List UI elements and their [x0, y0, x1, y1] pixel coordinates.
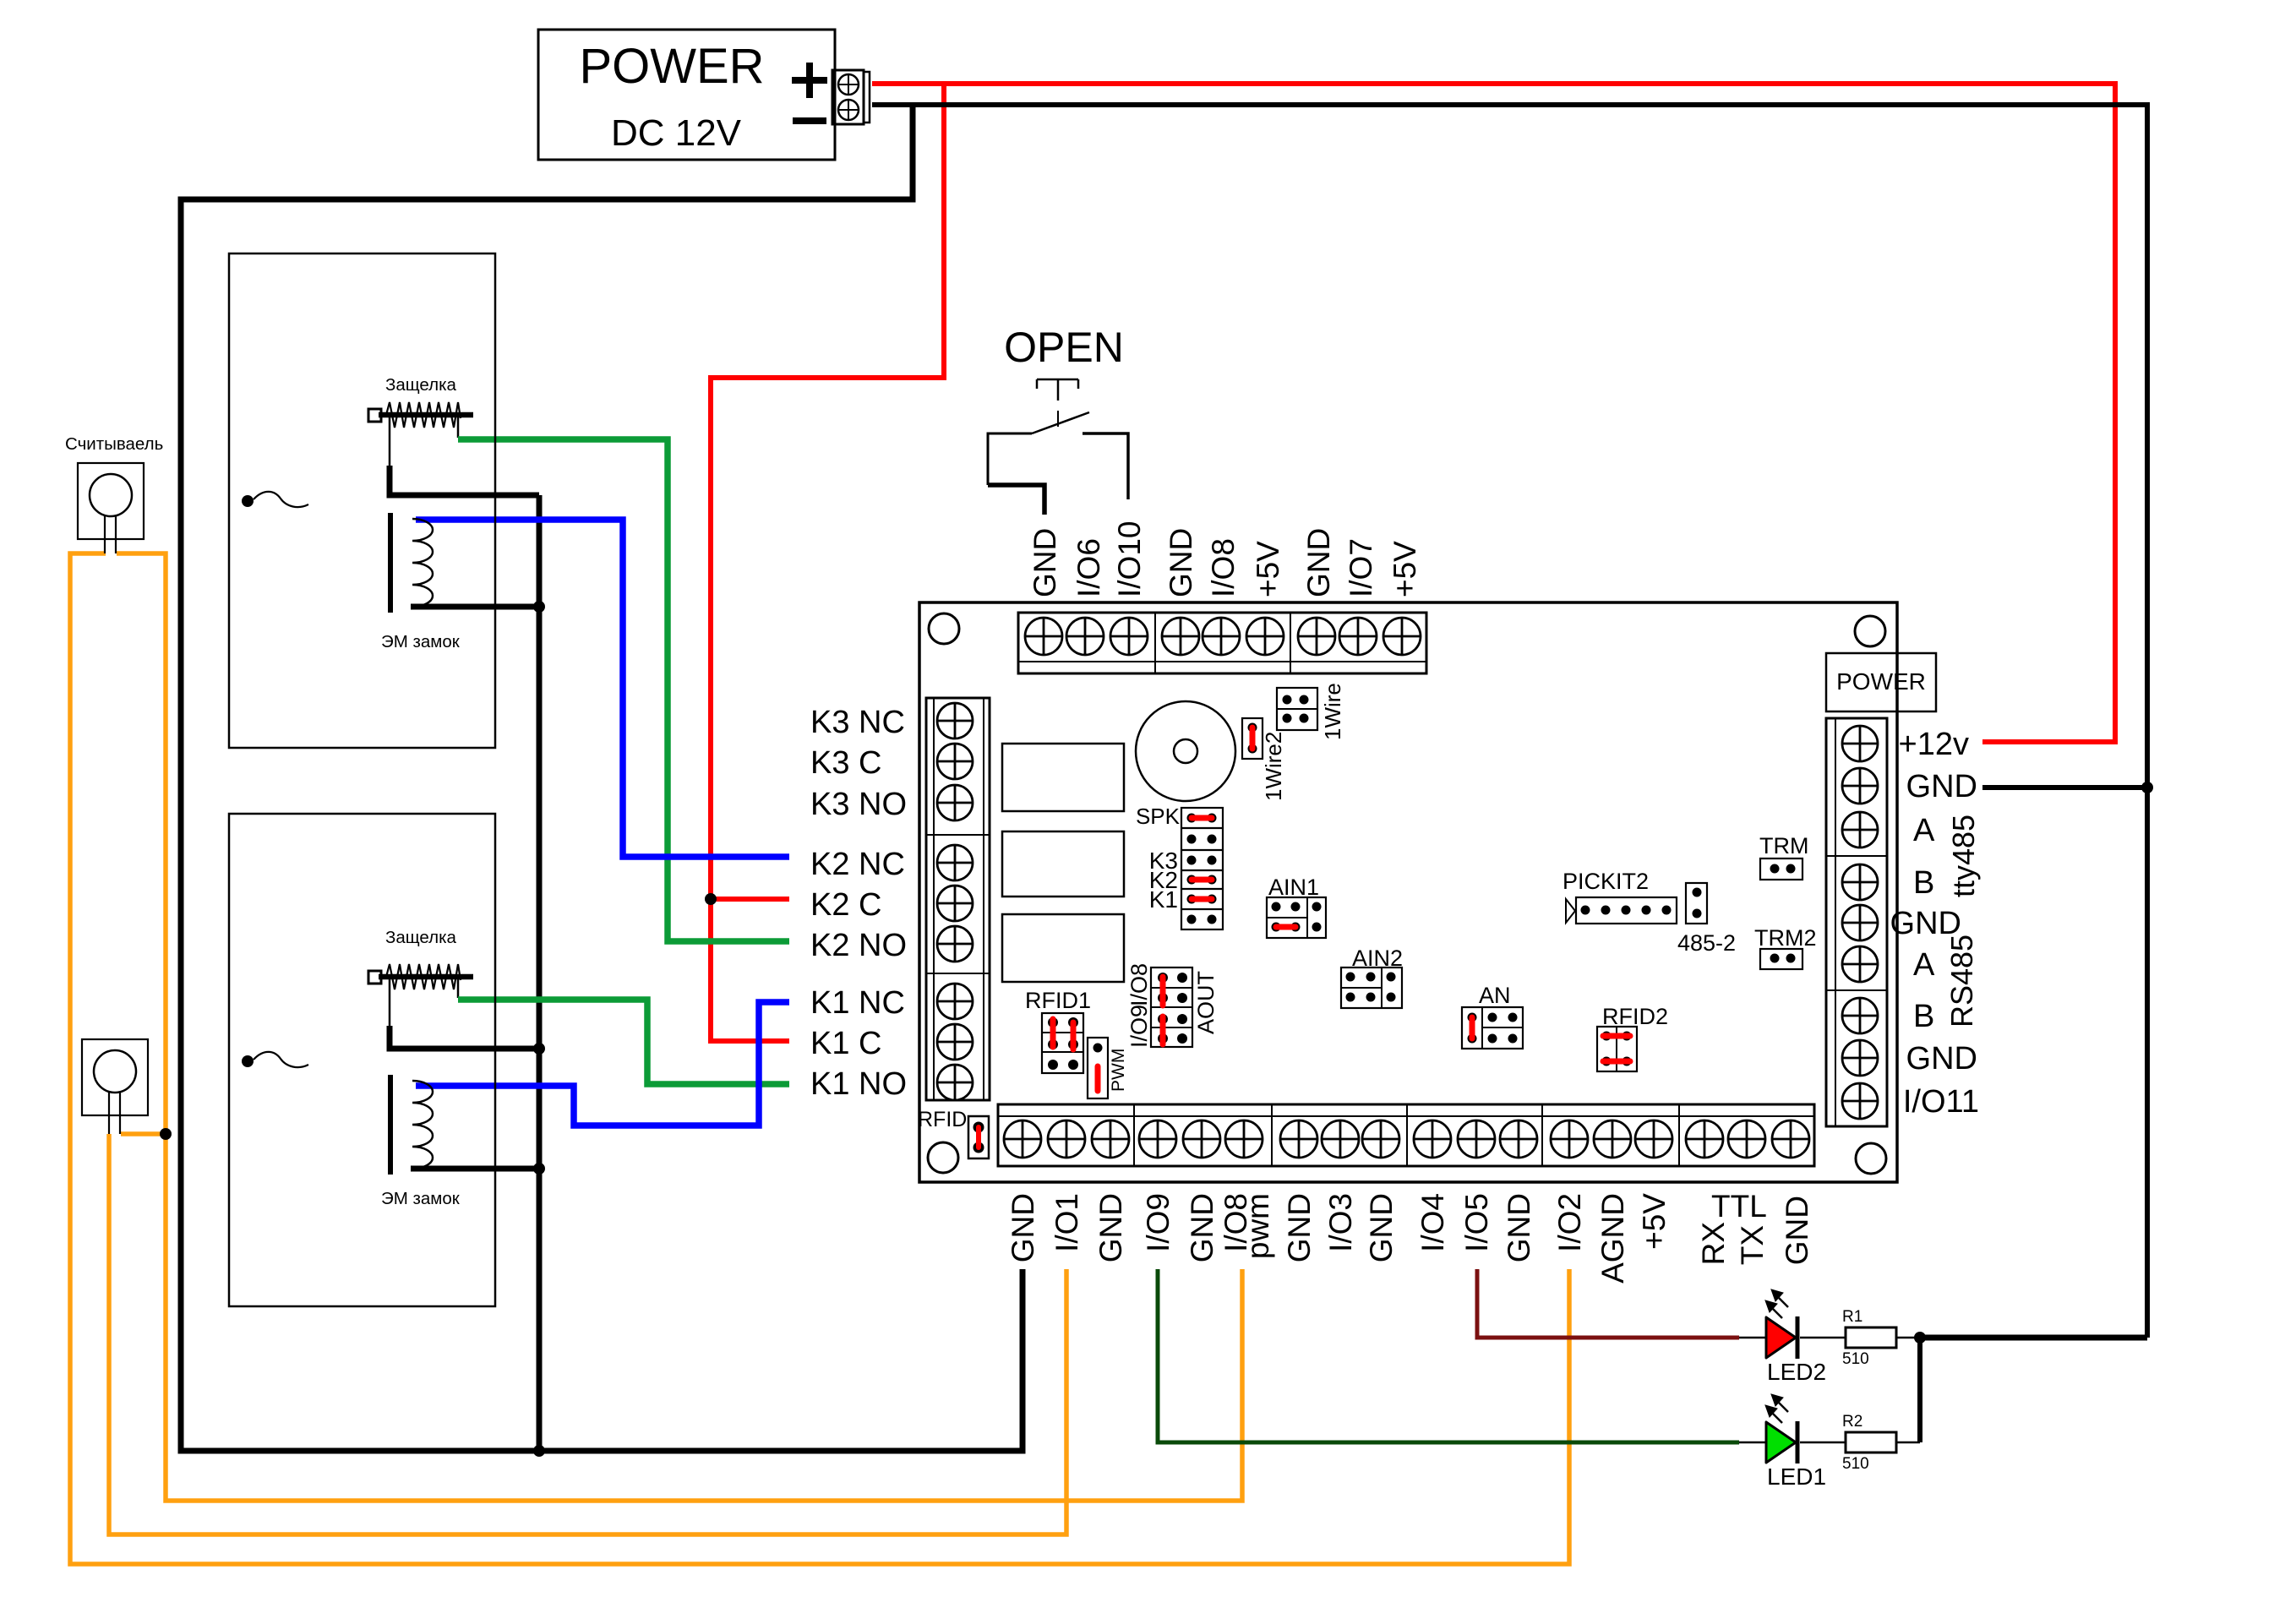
wire black latch1 stub: [457, 417, 460, 438]
relay K1 body: [1002, 914, 1124, 982]
LED2 emission arrows: [1765, 1289, 1788, 1318]
wire black LED return: [1920, 1335, 2147, 1341]
jumper block AIN2: [1341, 967, 1402, 1008]
screw bottom terminal x1586: [1322, 1120, 1359, 1158]
screw top terminal x1558: [1298, 618, 1335, 655]
wire black door1 latch: [389, 417, 391, 467]
junction locks bottom: [533, 1445, 545, 1457]
svg-text:AIN1: AIN1: [1268, 875, 1319, 900]
svg-text:I/O4: I/O4: [1415, 1193, 1450, 1252]
screw left terminal y950: [937, 785, 973, 820]
relay K3 body: [1002, 744, 1124, 811]
svg-text:+5V: +5V: [1637, 1193, 1672, 1250]
screw left terminal y853: [937, 703, 973, 739]
push button right contact to I/O10: [1083, 433, 1128, 499]
buzzer SPK: [1136, 701, 1235, 801]
door 2 handle: [242, 1052, 308, 1067]
svg-text:K3 C: K3 C: [810, 745, 881, 781]
svg-text:I/O11: I/O11: [1903, 1084, 1979, 1120]
bottom terminal block J-bottom: [998, 1104, 1814, 1166]
wire black door1 lock: [411, 604, 539, 610]
svg-text:POWER: POWER: [1836, 668, 1926, 695]
wire orange reader1 to I/O2: [70, 553, 1569, 1564]
screw top terminal x1659: [1383, 618, 1421, 655]
svg-text:B: B: [1913, 999, 1934, 1034]
resistor R1: [1846, 1327, 1915, 1348]
screw right terminal y982: [1842, 812, 1878, 848]
jumper 1Wire2: [1242, 718, 1263, 759]
svg-text:I/O8: I/O8: [1126, 963, 1152, 1006]
screw bottom terminal x1908: [1594, 1120, 1631, 1158]
svg-text:DC 12V: DC 12V: [611, 112, 742, 154]
jumper 485-2: [1686, 883, 1707, 924]
svg-text:I/O5: I/O5: [1459, 1193, 1494, 1252]
connector PICKIT2: [1566, 897, 1677, 924]
screw top terminal x1284: [1066, 618, 1104, 655]
resistor R2: [1846, 1432, 1920, 1453]
svg-text:GND: GND: [1780, 1196, 1814, 1265]
wire red branch down to relay commons: [711, 84, 944, 1041]
mounting hole top-right: [1855, 616, 1885, 646]
reader 1: [78, 463, 144, 553]
svg-text:510: 510: [1842, 1350, 1869, 1368]
lock 2 coil: [390, 1075, 433, 1175]
screw left terminal y1185: [937, 984, 973, 1019]
wire black door2 lock: [411, 1166, 539, 1172]
jumper TRM: [1760, 858, 1802, 880]
jumper block RFID2: [1597, 1027, 1637, 1071]
screw right terminal y930: [1842, 768, 1878, 804]
svg-text:+5V: +5V: [1251, 541, 1285, 597]
svg-text:LED1: LED1: [1767, 1463, 1826, 1490]
push button actuator: [1037, 379, 1078, 401]
mounting hole bottom-right: [1856, 1143, 1886, 1174]
svg-text:K2 NC: K2 NC: [810, 847, 905, 882]
svg-text:R1: R1: [1842, 1308, 1862, 1326]
junction LED return: [1914, 1332, 1926, 1344]
svg-text:K3 NO: K3 NO: [810, 787, 907, 822]
svg-text:K2 NO: K2 NO: [810, 928, 907, 963]
svg-text:TTL: TTL: [1711, 1189, 1767, 1224]
svg-text:1Wire: 1Wire: [1320, 683, 1345, 740]
svg-text:485-2: 485-2: [1677, 930, 1736, 956]
relay K2 body: [1002, 831, 1124, 897]
push button left contact to GND: [988, 433, 1032, 485]
svg-text:B: B: [1913, 865, 1934, 901]
svg-text:AGND: AGND: [1595, 1193, 1630, 1284]
junction GND right: [2141, 782, 2153, 793]
svg-text:A: A: [1913, 813, 1935, 848]
svg-text:RFID1: RFID1: [1025, 988, 1091, 1013]
wire green door1 latch to K2 NO: [458, 439, 789, 941]
door 1 handle: [242, 492, 308, 507]
screw bottom terminal x1422: [1183, 1120, 1220, 1158]
jumper 1Wire: [1277, 688, 1317, 730]
svg-text:GND: GND: [1185, 1193, 1219, 1262]
screw left terminal y1233: [937, 1024, 973, 1060]
screw bottom terminal x1472: [1225, 1120, 1263, 1158]
wire orange reader2 link: [121, 1131, 166, 1136]
svg-text:POWER: POWER: [579, 39, 764, 94]
svg-text:PWM: PWM: [1109, 1049, 1128, 1092]
screw right terminal y1202: [1842, 998, 1878, 1033]
svg-text:GND: GND: [1301, 528, 1336, 597]
screw left terminal y1281: [937, 1065, 973, 1100]
push button blade: [1032, 412, 1089, 433]
screw right terminal y1303: [1842, 1083, 1878, 1119]
svg-text:TRM2: TRM2: [1754, 925, 1817, 951]
screw top terminal x1397: [1162, 618, 1199, 655]
jumper block SPK K3 K2 K1: [1181, 808, 1223, 929]
svg-text:I/O10: I/O10: [1112, 521, 1147, 598]
LED1 emission arrows: [1765, 1394, 1788, 1423]
wire black locks common vertical: [537, 495, 543, 1451]
screw bottom terminal x1262: [1048, 1120, 1085, 1158]
wire black LED1-LED2 link: [1917, 1338, 1922, 1442]
svg-text:GND: GND: [1502, 1193, 1536, 1262]
screw bottom terminal x1370: [1139, 1120, 1176, 1158]
screw bottom terminal x1314: [1092, 1120, 1129, 1158]
jumper block AN: [1462, 1007, 1523, 1049]
svg-text:I/O7: I/O7: [1344, 538, 1378, 597]
POWER connector label box: [1826, 653, 1936, 711]
screw right terminal y1044: [1842, 864, 1878, 900]
svg-text:GND: GND: [1006, 1193, 1040, 1262]
jumper RFID: [968, 1116, 989, 1158]
wire GND board right: [1982, 785, 2147, 790]
PSU screw terminal block: [832, 70, 870, 124]
screw bottom terminal x1797: [1500, 1120, 1537, 1158]
door 1 outline: [229, 253, 495, 748]
power supply PSU box: [538, 30, 835, 160]
junction locks 3: [533, 1163, 545, 1175]
screw right terminal y1141: [1842, 946, 1878, 982]
svg-text:I/O3: I/O3: [1323, 1193, 1358, 1252]
screw top terminal x1336: [1110, 618, 1148, 655]
mounting hole top-left: [929, 613, 959, 644]
svg-text:AN: AN: [1479, 983, 1511, 1008]
svg-text:Защелка: Защелка: [385, 928, 457, 947]
svg-text:+5V: +5V: [1388, 541, 1422, 597]
screw bottom terminal x1857: [1551, 1120, 1588, 1158]
screw bottom terminal x1634: [1362, 1120, 1399, 1158]
svg-text:RFID2: RFID2: [1602, 1004, 1668, 1029]
controller board outline: [919, 602, 1897, 1182]
wire GND branch left loop: [181, 105, 1023, 1451]
svg-text:RX: RX: [1696, 1222, 1731, 1265]
svg-text:RFID: RFID: [918, 1108, 967, 1131]
wire green door2 latch to K1 NO: [458, 1000, 789, 1084]
screw right terminal y880: [1842, 726, 1878, 761]
door 2 outline: [229, 814, 495, 1306]
svg-text:510: 510: [1842, 1455, 1869, 1473]
wire orange reader2 to I/O1: [109, 1134, 1066, 1534]
svg-text:GND: GND: [1282, 1193, 1317, 1262]
svg-text:K1 NO: K1 NO: [810, 1066, 907, 1102]
svg-text:1Wire2: 1Wire2: [1261, 732, 1286, 801]
screw bottom terminal x1537: [1280, 1120, 1317, 1158]
svg-text:pwm: pwm: [1241, 1193, 1275, 1259]
svg-text:K2 C: K2 C: [810, 887, 881, 923]
jumper block RFID1: [1042, 1013, 1083, 1073]
junction red K2C: [705, 893, 717, 905]
wire dark red I/O5 to LED2: [1477, 1269, 1739, 1338]
svg-text:RS485: RS485: [1944, 935, 1979, 1027]
junction locks 1: [533, 601, 545, 613]
svg-text:Считываель: Считываель: [65, 434, 163, 454]
right terminal block J-right: [1826, 718, 1887, 1126]
PSU plus symbol: [792, 63, 827, 98]
svg-text:GND: GND: [1164, 528, 1198, 597]
svg-text:tty485: tty485: [1946, 815, 1981, 897]
wire dark green I/O9 to LED1: [1158, 1269, 1739, 1442]
svg-text:GND: GND: [1906, 769, 1977, 804]
LED1 green indicator: [1739, 1421, 1846, 1463]
svg-text:K1 NC: K1 NC: [810, 985, 905, 1021]
wire red stub K2 C: [711, 897, 789, 902]
svg-text:Защелка: Защелка: [385, 375, 457, 395]
svg-text:I/O6: I/O6: [1072, 538, 1106, 597]
jumper PWM: [1088, 1038, 1108, 1098]
left terminal block J-left (relay outputs): [926, 698, 990, 1100]
svg-text:LED2: LED2: [1767, 1359, 1826, 1385]
svg-text:TRM: TRM: [1759, 833, 1808, 858]
svg-text:ЭМ замок: ЭМ замок: [381, 1189, 461, 1208]
push button link: [1057, 411, 1059, 427]
screw bottom terminal x1957: [1635, 1120, 1672, 1158]
jumper block AOUT I/O9 I/O8: [1151, 967, 1192, 1047]
svg-text:ЭМ замок: ЭМ замок: [381, 632, 461, 651]
screw left terminal y1069: [937, 886, 973, 921]
svg-text:A: A: [1913, 947, 1935, 983]
PSU minus symbol: [793, 117, 826, 124]
svg-text:GND: GND: [1028, 528, 1062, 597]
wire +12V red PSU to board: [872, 84, 2115, 742]
screw right terminal y1092: [1842, 905, 1878, 940]
screw right terminal y1252: [1842, 1040, 1878, 1076]
screw bottom terminal x2067: [1728, 1120, 1765, 1158]
wire black door2 latch: [389, 978, 391, 1027]
screw bottom terminal x1747: [1458, 1120, 1495, 1158]
svg-text:GND: GND: [1364, 1193, 1399, 1262]
svg-text:I/O2: I/O2: [1552, 1193, 1587, 1252]
screw left terminal y1021: [937, 845, 973, 880]
screw left terminal y901: [937, 744, 973, 779]
jumper TRM2: [1760, 949, 1802, 969]
wire orange reader1 to I/O8 pwm: [117, 553, 1242, 1501]
screw bottom terminal x1695: [1414, 1120, 1451, 1158]
top terminal block J-top: [1018, 613, 1426, 673]
screw top terminal x1497: [1246, 618, 1284, 655]
screw bottom terminal x1210: [1004, 1120, 1041, 1158]
svg-text:K1: K1: [1149, 886, 1178, 913]
svg-text:AOUT: AOUT: [1193, 971, 1219, 1034]
latch 1 solenoid: [368, 402, 473, 428]
wire GND black from PSU to right side: [872, 105, 2147, 1338]
svg-text:I/O8: I/O8: [1206, 538, 1241, 597]
svg-text:+12v: +12v: [1899, 727, 1969, 762]
screw bottom terminal x2017: [1686, 1120, 1723, 1158]
svg-text:GND: GND: [1093, 1193, 1128, 1262]
svg-text:R2: R2: [1842, 1413, 1862, 1431]
svg-text:SPK: SPK: [1136, 804, 1181, 829]
screw top terminal x1235: [1025, 618, 1062, 655]
LED2 red indicator: [1739, 1316, 1846, 1359]
lock 1 coil: [390, 513, 433, 613]
junction orange readers: [160, 1128, 172, 1140]
svg-text:K1 C: K1 C: [810, 1026, 881, 1061]
svg-text:PICKIT2: PICKIT2: [1562, 869, 1649, 894]
screw top terminal x1445: [1203, 618, 1240, 655]
screw bottom terminal x2119: [1772, 1120, 1809, 1158]
wire black latch2 stub: [457, 978, 460, 998]
reader 2: [82, 1039, 148, 1134]
svg-text:I/O1: I/O1: [1050, 1193, 1084, 1252]
screw top terminal x1607: [1339, 618, 1377, 655]
svg-text:I/O9: I/O9: [1141, 1193, 1175, 1252]
svg-text:K3 NC: K3 NC: [810, 705, 905, 740]
svg-text:OPEN: OPEN: [1004, 324, 1124, 371]
svg-text:GND: GND: [1906, 1041, 1977, 1076]
wire blue door2 lock to K1 NC: [416, 1002, 789, 1126]
latch 2 solenoid: [368, 964, 473, 989]
svg-text:I/O9: I/O9: [1126, 1005, 1152, 1048]
mounting hole bottom-left: [928, 1142, 958, 1173]
junction locks 2: [533, 1043, 545, 1055]
jumper block AIN1: [1267, 897, 1326, 938]
svg-text:TX: TX: [1735, 1225, 1770, 1265]
wire blue door1 lock to K2 NC: [416, 520, 789, 857]
screw left terminal y1117: [937, 926, 973, 962]
